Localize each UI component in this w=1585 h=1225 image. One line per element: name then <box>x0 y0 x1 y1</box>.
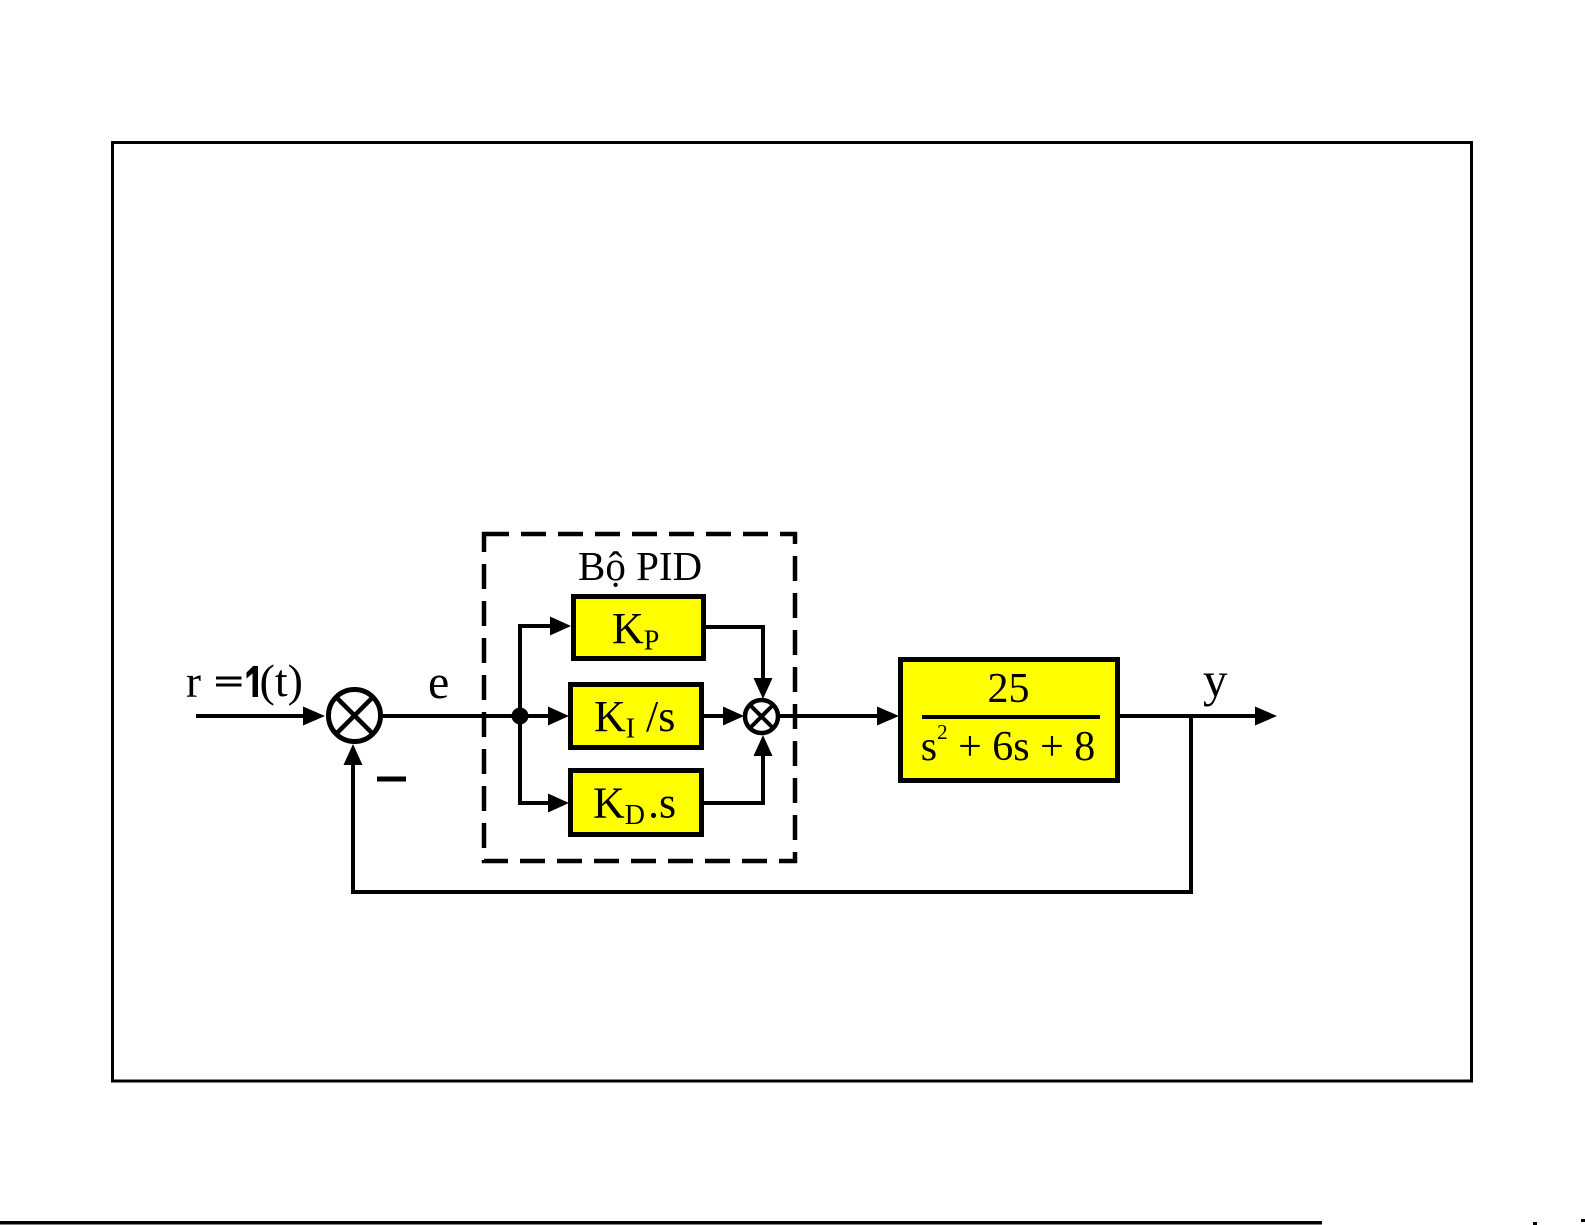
svg-text:y: y <box>1203 652 1228 707</box>
svg-text:r: r <box>186 657 201 707</box>
svg-text:e: e <box>428 656 449 709</box>
svg-text:Bộ PID: Bộ PID <box>578 543 702 589</box>
svg-text:25: 25 <box>988 666 1030 712</box>
svg-text:s2 + 6s + 8: s2 + 6s + 8 <box>921 720 1096 770</box>
svg-text:(t): (t) <box>260 655 303 706</box>
